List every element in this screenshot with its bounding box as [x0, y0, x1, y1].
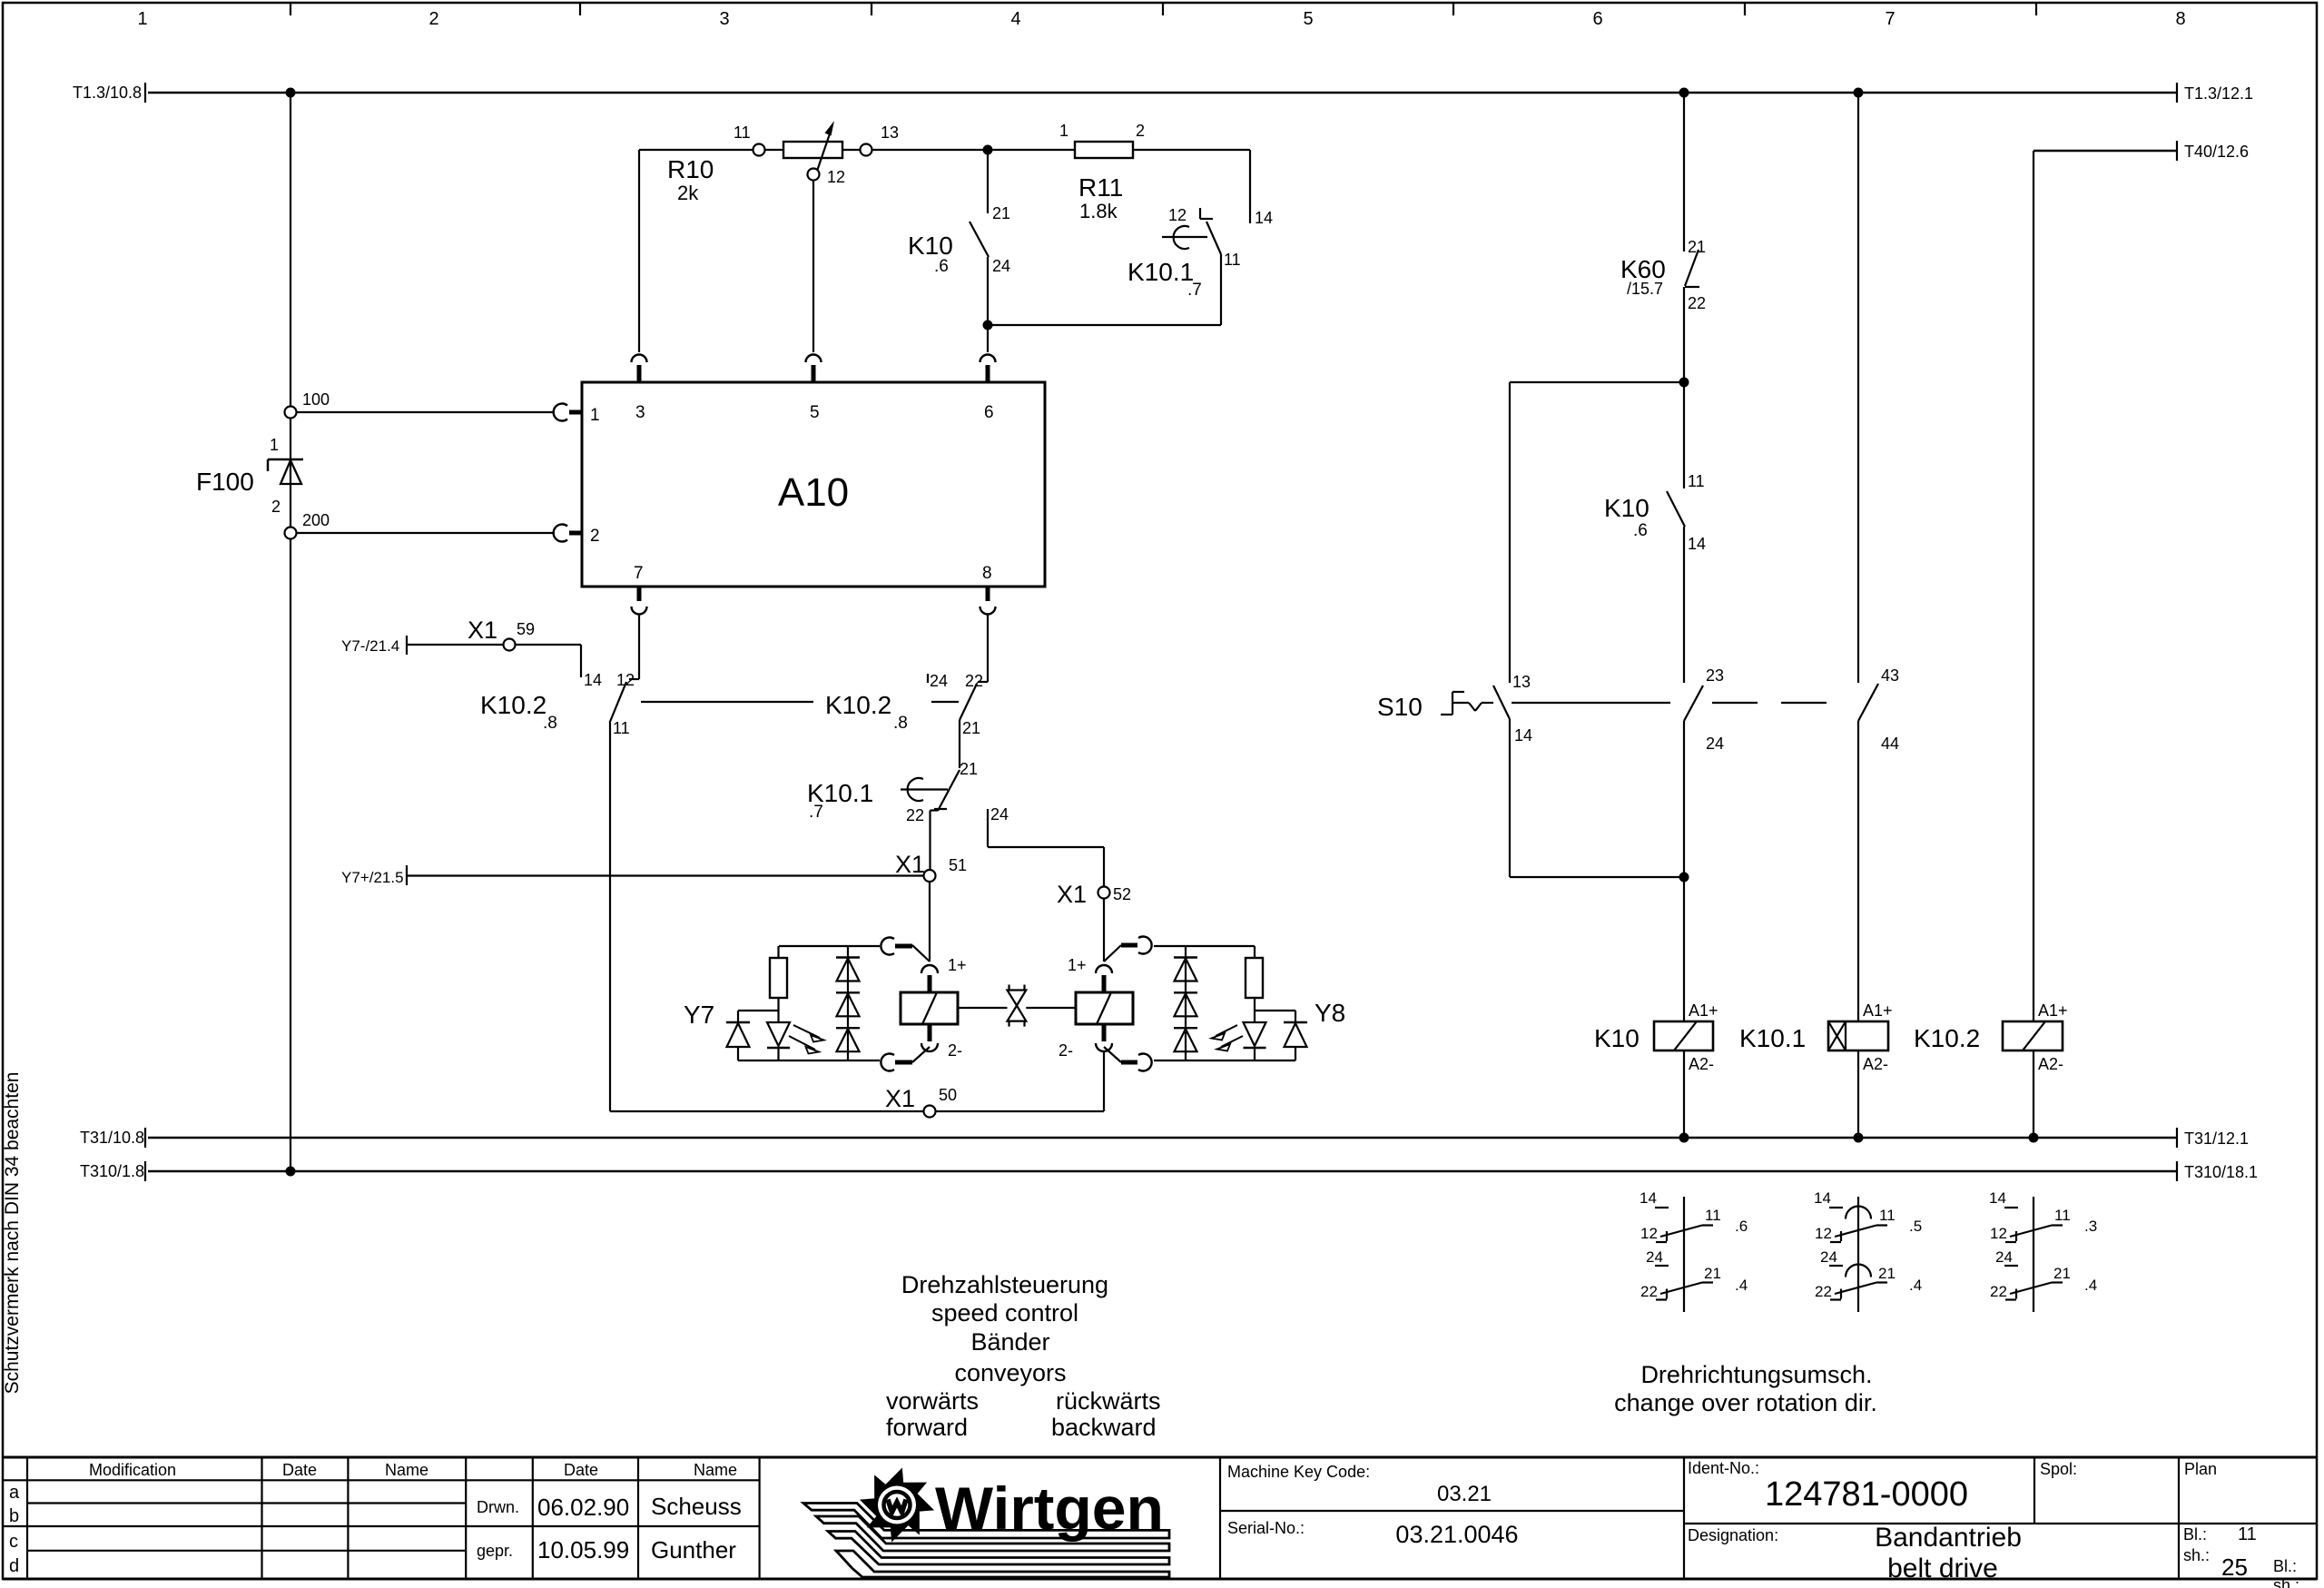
- svg-text:Wirtgen: Wirtgen: [935, 1475, 1164, 1542]
- svg-text:forward: forward: [886, 1414, 968, 1441]
- svg-text:24: 24: [1706, 735, 1724, 753]
- wire K10.1-22 drop to X1:51: [929, 811, 931, 870]
- svg-text:Ident-No.:: Ident-No.:: [1688, 1459, 1759, 1477]
- title block headers: [89, 1461, 737, 1479]
- svg-text:14: 14: [1688, 535, 1706, 553]
- svg-text:Machine Key Code:: Machine Key Code:: [1227, 1463, 1370, 1481]
- svg-text:K10: K10: [1604, 494, 1649, 522]
- svg-text:c: c: [9, 1532, 18, 1552]
- logo Wirtgen: [803, 1471, 1169, 1577]
- svg-text:Scheuss: Scheuss: [651, 1493, 742, 1520]
- contact mirror table K10: [1640, 1189, 1748, 1312]
- svg-text:12: 12: [1815, 1225, 1832, 1242]
- node junction R11/K10 branch: [983, 145, 993, 155]
- wire K10.2-11 long drop: [609, 723, 611, 1111]
- svg-text:A10: A10: [778, 470, 849, 515]
- svg-text:Y8: Y8: [1315, 999, 1345, 1027]
- wire: [765, 149, 783, 151]
- wire Y7 network bottom rail: [738, 1060, 880, 1061]
- svg-text:12: 12: [827, 168, 845, 186]
- svg-text:X1: X1: [895, 851, 925, 878]
- svg-text:X1: X1: [885, 1085, 915, 1112]
- title field designation: [1688, 1523, 2022, 1583]
- terminal X 200: [285, 511, 330, 539]
- terminal X1:51: [895, 851, 967, 882]
- svg-text:11: 11: [2238, 1524, 2257, 1544]
- wire: [987, 257, 989, 325]
- switch contact S10 43-44 (NO): [1858, 666, 1899, 753]
- LED H (Y7 indicator): [767, 1022, 824, 1060]
- svg-text:/15.7: /15.7: [1627, 280, 1663, 298]
- svg-text:Gunther: Gunther: [651, 1536, 736, 1563]
- svg-text:b: b: [9, 1506, 19, 1526]
- svg-text:14: 14: [1814, 1189, 1831, 1207]
- A10 pin 7 connector: [632, 564, 647, 615]
- diode V (Y8 reverse): [1284, 1022, 1307, 1060]
- terminal X1:24 wire to X1:52: [988, 805, 1104, 886]
- svg-text:Name: Name: [694, 1461, 737, 1479]
- svg-text:.4: .4: [2084, 1277, 2097, 1294]
- title block grid: [3, 1457, 2317, 1579]
- svg-text:7: 7: [1885, 9, 1895, 29]
- relay coil K10: [1594, 1001, 1718, 1073]
- svg-text:5: 5: [1303, 9, 1313, 29]
- svg-text:24: 24: [930, 672, 948, 690]
- svg-text:R11: R11: [1078, 173, 1123, 202]
- svg-text:11: 11: [734, 123, 751, 142]
- svg-text:Y7+/21.5: Y7+/21.5: [341, 869, 404, 886]
- terminal X1:50: [885, 1085, 957, 1118]
- label Y7: [684, 1001, 714, 1029]
- svg-text:T40/12.6: T40/12.6: [2184, 143, 2249, 161]
- svg-text:T31/12.1: T31/12.1: [2184, 1129, 2249, 1148]
- column index strip: [137, 3, 2185, 29]
- svg-text:14: 14: [584, 671, 602, 689]
- wire bus T310 (bottom rail 2): [80, 1161, 2258, 1181]
- svg-text:24: 24: [990, 805, 1009, 824]
- svg-text:backward: backward: [1051, 1414, 1157, 1441]
- svg-text:52: 52: [1113, 885, 1131, 903]
- svg-text:Modification: Modification: [89, 1461, 176, 1479]
- wire S10 branch top: [1510, 382, 1684, 683]
- svg-text:12: 12: [616, 671, 635, 689]
- svg-text:sh.:: sh.:: [2183, 1546, 2210, 1564]
- svg-text:Date: Date: [564, 1461, 598, 1479]
- svg-text:2k: 2k: [677, 182, 699, 204]
- annotation rotation direction block: [1614, 1361, 1877, 1416]
- svg-text:12: 12: [1168, 206, 1187, 224]
- svg-text:K10.1: K10.1: [1739, 1024, 1806, 1052]
- contact mirror table K10.1: [1814, 1189, 1922, 1312]
- svg-text:14: 14: [1989, 1189, 2006, 1207]
- wire: [959, 720, 960, 768]
- svg-text:Drehrichtungsumsch.: Drehrichtungsumsch.: [1640, 1361, 1872, 1388]
- valve solenoid coil Y7: [901, 992, 958, 1024]
- pushbutton switch S10 (NO 13-14): [1377, 673, 1532, 745]
- svg-text:2: 2: [428, 9, 438, 29]
- svg-text:R10: R10: [667, 155, 714, 183]
- svg-text:03.21.0046: 03.21.0046: [1395, 1521, 1518, 1548]
- node junction T1.3/K60: [1679, 88, 1689, 98]
- wire A10 pin8 drop: [978, 615, 988, 682]
- diode chain V1-V3 (Y7): [836, 946, 860, 1060]
- diode chain V4-V6 (Y8): [1174, 946, 1197, 1060]
- svg-text:gepr.: gepr.: [477, 1542, 513, 1560]
- svg-text:21: 21: [1704, 1265, 1721, 1282]
- svg-text:6: 6: [984, 403, 994, 422]
- title block row letters: [9, 1483, 20, 1576]
- svg-text:44: 44: [1881, 735, 1899, 753]
- connector Y8 coil pin 1+: [1068, 937, 1152, 992]
- wire X1:51 to Y7 coil: [929, 883, 931, 962]
- svg-text:22: 22: [1640, 1283, 1658, 1300]
- svg-text:.8: .8: [893, 714, 908, 733]
- svg-text:S10: S10: [1377, 693, 1423, 721]
- terminal R10 pin 11: [734, 123, 765, 156]
- svg-text:11: 11: [2054, 1207, 2071, 1224]
- svg-text:rückwärts: rückwärts: [1056, 1387, 1161, 1415]
- wire: [738, 1011, 779, 1022]
- suppressor diode F100: [196, 436, 303, 516]
- svg-text:A1+: A1+: [2038, 1001, 2068, 1020]
- svg-text:22: 22: [1815, 1283, 1832, 1300]
- svg-text:Bandantrieb: Bandantrieb: [1875, 1523, 2022, 1553]
- wire: [1683, 721, 1685, 877]
- title field machine key code: [1227, 1463, 1492, 1506]
- svg-text:24: 24: [1995, 1248, 2013, 1266]
- terminal X1:59 wire Y7-/21.4: [341, 616, 602, 689]
- A10 pin 5 connector: [806, 355, 822, 423]
- svg-text:F100: F100: [196, 468, 254, 496]
- svg-text:2-: 2-: [948, 1041, 962, 1060]
- svg-text:11: 11: [613, 719, 630, 737]
- svg-text:43: 43: [1881, 666, 1899, 685]
- svg-text:200: 200: [302, 511, 330, 529]
- svg-text:.7: .7: [1187, 281, 1202, 300]
- svg-text:.6: .6: [1735, 1218, 1748, 1235]
- svg-text:.4: .4: [1909, 1277, 1922, 1294]
- svg-text:21: 21: [962, 719, 980, 737]
- svg-text:K10.2: K10.2: [1914, 1024, 1980, 1052]
- wire: [1857, 1050, 1859, 1138]
- left margin vertical note: [2, 1072, 23, 1395]
- svg-text:Drehzahlsteuerung: Drehzahlsteuerung: [901, 1271, 1108, 1298]
- wire: [1683, 1050, 1685, 1138]
- node junction pin6 branch: [983, 321, 993, 330]
- svg-text:Schutzvermerk nach DIN 34 beac: Schutzvermerk nach DIN 34 beachten: [2, 1072, 23, 1395]
- title field plan: [2184, 1460, 2217, 1478]
- node junction T1.3/S10-43: [1854, 88, 1864, 98]
- svg-text:10.05.99: 10.05.99: [537, 1536, 629, 1563]
- relay contact K10 .6 (NO): [908, 204, 1010, 276]
- svg-text:A1+: A1+: [1689, 1001, 1718, 1020]
- svg-text:21: 21: [1878, 1265, 1896, 1282]
- svg-text:5: 5: [810, 403, 820, 422]
- svg-text:59: 59: [517, 620, 535, 638]
- svg-text:K10: K10: [1594, 1024, 1640, 1052]
- node junction T1.3/F100: [286, 88, 296, 98]
- label Y8: [1315, 999, 1345, 1027]
- terminal R10 pin 13: [861, 123, 900, 156]
- title field ident number: [1688, 1459, 1968, 1514]
- svg-text:4: 4: [1010, 9, 1020, 29]
- valve solenoid coil Y8: [1076, 992, 1133, 1024]
- svg-text:.7: .7: [809, 803, 823, 822]
- svg-text:belt drive: belt drive: [1887, 1553, 1998, 1583]
- svg-text:13: 13: [881, 123, 899, 142]
- svg-text:22: 22: [1688, 294, 1706, 312]
- resistor R11: [1059, 122, 1145, 222]
- node junction T31/K10 coil: [1679, 1133, 1689, 1143]
- wire A10 pin1 to terminal 100: [297, 411, 554, 413]
- wire pot feed: [639, 149, 753, 151]
- svg-text:K10.2: K10.2: [825, 691, 891, 719]
- svg-text:1+: 1+: [1068, 956, 1087, 974]
- title block checked row: [477, 1536, 736, 1563]
- svg-text:A2-: A2-: [2038, 1055, 2063, 1073]
- wire R10 wiper to A10 pin5: [812, 181, 814, 352]
- svg-text:vorwärts: vorwärts: [886, 1387, 979, 1415]
- svg-text:.3: .3: [2084, 1218, 2097, 1235]
- svg-text:2-: 2-: [1059, 1041, 1073, 1060]
- wire: [1857, 721, 1859, 1021]
- svg-text:21: 21: [960, 760, 978, 778]
- svg-text:Bl.:: Bl.:: [2273, 1557, 2297, 1575]
- svg-text:25: 25: [2221, 1553, 2248, 1581]
- svg-text:Bl.:: Bl.:: [2183, 1525, 2207, 1544]
- resistor R (Y8 lamp dropper): [1246, 946, 1263, 1022]
- annotation speed control block: [886, 1271, 1161, 1441]
- wire F100 branch vertical: [290, 93, 291, 1171]
- svg-text:X1: X1: [468, 616, 497, 644]
- title field sheet numbers: [2183, 1524, 2299, 1588]
- svg-text:14: 14: [1514, 726, 1532, 745]
- controller A10 box: [582, 382, 1045, 587]
- svg-text:Serial-No.:: Serial-No.:: [1227, 1519, 1305, 1537]
- svg-text:1+: 1+: [948, 956, 967, 974]
- svg-text:11: 11: [1879, 1207, 1896, 1224]
- svg-text:.5: .5: [1909, 1218, 1922, 1235]
- svg-text:Y7: Y7: [684, 1001, 714, 1029]
- svg-text:3: 3: [635, 403, 645, 422]
- node junction T31/K10.1 coil: [1854, 1133, 1864, 1143]
- wire bus T31 (bottom rail): [80, 1128, 2249, 1148]
- svg-text:Designation:: Designation:: [1688, 1526, 1778, 1544]
- wire T40 vertical feeder: [2033, 151, 2034, 1021]
- connector Y8 coil pin 2-: [1059, 1024, 1152, 1071]
- svg-text:d: d: [9, 1556, 19, 1576]
- wire A10 pin7 drop: [629, 615, 639, 679]
- wire Y8 network top rail: [1154, 945, 1255, 947]
- svg-text:Drwn.: Drwn.: [477, 1498, 519, 1516]
- svg-text:.8: .8: [543, 714, 557, 733]
- switch contact S10 23-24 (NO): [1684, 666, 1724, 753]
- svg-text:23: 23: [1706, 666, 1724, 685]
- svg-text:1.8k: 1.8k: [1079, 200, 1118, 222]
- resistor R (Y7 lamp dropper): [770, 946, 787, 1022]
- svg-text:24: 24: [1820, 1248, 1837, 1266]
- wire K10 coil feeder: [1683, 877, 1685, 1021]
- svg-text:A1+: A1+: [1863, 1001, 1893, 1020]
- svg-text:Plan: Plan: [2184, 1460, 2217, 1478]
- svg-text:13: 13: [1512, 673, 1531, 691]
- terminal R10 wiper 12: [808, 168, 846, 186]
- wire Y8 network bottom rail: [1154, 1060, 1295, 1061]
- node junction K10 coil top: [1679, 873, 1689, 883]
- svg-text:change over rotation dir.: change over rotation dir.: [1614, 1389, 1877, 1416]
- svg-text:100: 100: [302, 390, 330, 409]
- svg-text:2: 2: [1136, 122, 1145, 140]
- svg-text:1: 1: [137, 9, 147, 29]
- svg-text:2: 2: [590, 527, 600, 546]
- svg-text:3: 3: [719, 9, 729, 29]
- svg-text:21: 21: [2053, 1265, 2071, 1282]
- wire pin6 drop: [987, 325, 989, 352]
- svg-text:1: 1: [270, 436, 279, 454]
- svg-text:03.21: 03.21: [1437, 1482, 1492, 1506]
- svg-text:1: 1: [1059, 122, 1068, 140]
- svg-text:T1.3/12.1: T1.3/12.1: [2184, 84, 2253, 103]
- A10 pin 3 connector: [632, 355, 647, 423]
- svg-text:Date: Date: [282, 1461, 317, 1479]
- relay contact K60 /15.7 (NC): [1620, 93, 1706, 312]
- svg-text:24: 24: [1646, 1248, 1663, 1266]
- connector Y7 coil pin 2-: [881, 1024, 962, 1071]
- svg-text:T1.3/10.8: T1.3/10.8: [73, 84, 142, 102]
- svg-text:24: 24: [992, 257, 1010, 275]
- svg-text:X1: X1: [1057, 881, 1087, 908]
- svg-text:A2-: A2-: [1689, 1055, 1714, 1073]
- wire A10 pin3 riser: [638, 150, 640, 352]
- svg-text:51: 51: [949, 856, 967, 874]
- A10 pin 1 connector: [554, 404, 600, 425]
- svg-text:22: 22: [1990, 1283, 2007, 1300]
- title field serial number: [1227, 1519, 1519, 1548]
- LED H (Y8 indicator): [1212, 1022, 1266, 1060]
- diode V (Y7 reverse): [726, 1022, 750, 1060]
- wire: [987, 150, 989, 213]
- svg-text:K10.2: K10.2: [480, 691, 547, 719]
- svg-text:21: 21: [1688, 238, 1706, 256]
- svg-text:124781-0000: 124781-0000: [1765, 1475, 1968, 1514]
- wire A10 pin2 to terminal 200: [297, 532, 554, 534]
- relay contact K10.2 .8 right (NC 22-21): [928, 672, 983, 737]
- svg-text:1: 1: [590, 406, 600, 425]
- svg-text:.6: .6: [1633, 521, 1648, 540]
- svg-text:conveyors: conveyors: [954, 1359, 1066, 1386]
- wire: [1255, 1011, 1295, 1022]
- wire K10 to K10.1 link: [988, 324, 1221, 326]
- relay coil K10.2: [1914, 1001, 2068, 1073]
- wire X1:50 to Y8 pin 2-: [936, 1051, 1104, 1111]
- relay coil K10.1 (remanence): [1739, 1001, 1893, 1073]
- potentiometer R10: [667, 121, 842, 204]
- svg-text:11: 11: [1705, 1207, 1721, 1224]
- wire S10-43 feeder: [1857, 93, 1859, 683]
- wire R10-13 to R11: [872, 149, 988, 151]
- svg-text:22: 22: [965, 672, 983, 690]
- svg-text:Bänder: Bänder: [970, 1328, 1049, 1356]
- terminal X1:52: [1057, 881, 1131, 908]
- svg-text:6: 6: [1592, 9, 1602, 29]
- wire: [988, 149, 1075, 151]
- A10 pin 6 connector: [980, 355, 996, 423]
- svg-text:8: 8: [982, 564, 992, 583]
- A10 pin 8 connector: [980, 564, 996, 615]
- svg-text:11: 11: [1224, 251, 1241, 269]
- svg-text:12: 12: [1640, 1225, 1658, 1242]
- svg-text:speed control: speed control: [931, 1299, 1078, 1327]
- A10 pin 2 connector: [554, 525, 600, 546]
- relay contact K10.1 .7 (changeover): [1128, 206, 1241, 325]
- svg-text:22: 22: [906, 806, 924, 824]
- svg-text:T310/1.8: T310/1.8: [80, 1162, 144, 1180]
- terminal X 100: [285, 390, 330, 419]
- wire bus T40 (to K10.2 coil): [2033, 141, 2249, 161]
- wire bus T1.3 (top supply rail): [73, 83, 2253, 103]
- wire Y7+/21.5 feeder: [341, 865, 923, 886]
- wire: [1683, 287, 1685, 382]
- relay contact K10.2 .8 left (NC 12-11): [480, 671, 635, 737]
- svg-text:Spol:: Spol:: [2040, 1460, 2077, 1478]
- svg-text:7: 7: [634, 564, 644, 583]
- wire Y7 network top rail: [779, 945, 880, 947]
- mechanical link S10 poles: [1512, 702, 1827, 704]
- hydraulic valve symbol: [958, 985, 1076, 1027]
- svg-text:14: 14: [1640, 1189, 1657, 1207]
- wire X1:52 to Y8 coil: [1103, 899, 1105, 962]
- relay contact K10.1 .7 mid (NC 21-22): [807, 760, 978, 824]
- wire R11 to K10.1 pin 14: [1133, 150, 1273, 227]
- wire: [842, 149, 860, 151]
- relay contact K10 .6 (NO): [1604, 382, 1706, 683]
- wire valve return to X1:50: [610, 1110, 923, 1112]
- contact mirror table K10.2: [1989, 1189, 2097, 1312]
- node junction T310/F100 branch: [286, 1167, 296, 1177]
- svg-text:a: a: [9, 1483, 20, 1503]
- wire S10 branch bottom: [1510, 719, 1684, 877]
- node junction T31/K10.2 coil: [2029, 1133, 2039, 1143]
- connector Y7 coil pin 1+: [881, 938, 966, 993]
- svg-text:T310/18.1: T310/18.1: [2184, 1163, 2258, 1181]
- title block drawn row: [477, 1493, 742, 1521]
- svg-text:.6: .6: [934, 257, 949, 276]
- svg-text:T31/10.8: T31/10.8: [80, 1129, 144, 1147]
- svg-text:06.02.90: 06.02.90: [537, 1494, 629, 1521]
- svg-text:14: 14: [1255, 209, 1273, 227]
- svg-text:Y7-/21.4: Y7-/21.4: [341, 637, 399, 655]
- svg-text:.4: .4: [1735, 1277, 1748, 1294]
- mechanical link K10.2: [641, 701, 813, 703]
- svg-text:11: 11: [1688, 472, 1705, 490]
- svg-text:2: 2: [271, 498, 281, 516]
- svg-text:K10: K10: [908, 232, 953, 260]
- svg-text:12: 12: [1990, 1225, 2007, 1242]
- node junction S10 branch top: [1679, 378, 1689, 388]
- label K10.2 right: [825, 691, 959, 733]
- svg-text:8: 8: [2175, 9, 2185, 29]
- svg-text:Name: Name: [385, 1461, 428, 1479]
- wire: [2033, 1050, 2034, 1138]
- title field spol: [2040, 1460, 2077, 1478]
- svg-text:A2-: A2-: [1863, 1055, 1888, 1073]
- svg-text:sh.:: sh.:: [2273, 1576, 2299, 1588]
- svg-text:21: 21: [992, 204, 1010, 222]
- svg-text:K10.1: K10.1: [1128, 258, 1194, 286]
- svg-text:50: 50: [939, 1086, 957, 1104]
